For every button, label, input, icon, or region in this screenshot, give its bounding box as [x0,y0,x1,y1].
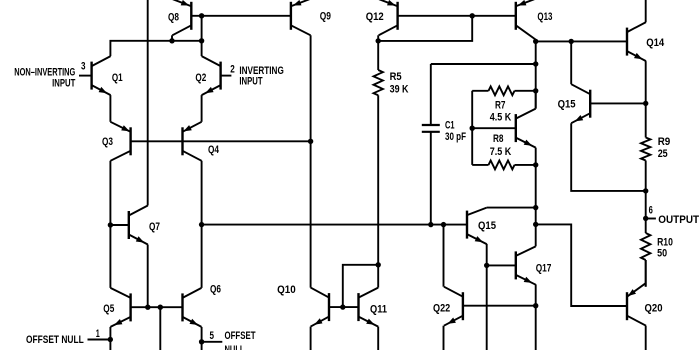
node Q17 base junction [484,263,489,268]
node Q10-Q11 base tie [340,304,345,309]
node Q14 base branch [569,39,574,44]
svg-text:OUTPUT: OUTPUT [658,214,699,226]
wire comp loop top [431,63,536,65]
transistor Q22 [444,287,463,326]
svg-text:R8: R8 [493,133,504,145]
wire Q15m emitter down [486,244,488,350]
label Q12 [366,11,384,23]
wire Q7 emitter down [147,245,149,308]
svg-text:Q9: Q9 [320,11,331,23]
label NON-INVERTING [14,67,75,79]
wire Q14 emitter down [645,61,647,137]
svg-text:Q10: Q10 [277,284,296,296]
wire Q8-Q9 base line [191,15,291,17]
svg-text:INPUT: INPUT [52,77,75,89]
svg-text:1: 1 [96,328,100,340]
label R10 value 50 [657,248,667,260]
svg-text:Q13: Q13 [537,11,552,23]
svg-text:Q3: Q3 [102,136,113,148]
wire Q16 emitter down [535,148,537,165]
wire R3 lead down [159,307,161,350]
resistor R7 [472,86,536,95]
wire Q17 base [487,264,516,266]
wire Q10-Q11 base line [329,306,359,308]
label Q2 [195,72,206,84]
svg-text:4.5 K: 4.5 K [490,112,512,124]
label Q22 [433,302,450,314]
wire Q11 emitter down [377,327,379,350]
transistor Q1 [92,56,111,95]
node Q22 collector junction [441,222,446,227]
svg-text:Q8: Q8 [168,12,179,24]
wire Q16 base [472,127,516,129]
svg-text:7.5 K: 7.5 K [490,146,512,158]
label R5 [390,71,402,83]
svg-text:R5: R5 [390,71,402,83]
node second stage takeoff [199,222,204,227]
node R3 junction [158,305,163,310]
transistor Q12 [379,0,398,35]
label Q15 (mid) [478,220,496,232]
label Q20 [645,303,663,315]
wire Q15 collector up [570,41,572,84]
transistor Q9 [291,0,311,35]
svg-text:Q6: Q6 [210,284,221,296]
label Q7 [149,221,160,233]
pin 3 stub [79,75,92,77]
node output junction [643,216,648,221]
label Q17 [536,262,552,274]
transistor Q6 [183,288,202,327]
wire Q4 collector down [201,161,203,288]
label R7 value 4.5 K [490,112,512,124]
svg-text:OFFSET NULL: OFFSET NULL [26,334,84,346]
transistor Q3 [110,122,130,161]
transistor Q5 [110,288,130,327]
label C1 [445,120,455,132]
wire Q2 collector up [201,41,203,56]
pin label 5 [210,330,215,342]
svg-text:R9: R9 [658,136,671,148]
node offset null 1 junction [108,337,113,342]
label Q9 [320,11,331,23]
transistor Q7 [129,206,148,245]
svg-text:Q7: Q7 [149,221,160,233]
label Q8 [168,12,179,24]
svg-text:Q12: Q12 [366,11,384,23]
pin 6 stub [646,218,656,220]
label Q13 [537,11,552,23]
svg-text:OFFSET: OFFSET [225,330,256,342]
wire right column lower [535,165,537,247]
resistor R9 [641,138,650,234]
svg-text:Q5: Q5 [103,303,114,315]
wire Q11 collector up [377,264,379,287]
svg-text:NULL: NULL [225,344,245,350]
wire Q8 collector down [171,35,173,41]
label Q15 (upper) [558,99,576,111]
transistor Q8 [172,0,191,35]
wire R7-R8 left side [471,91,473,165]
node Q8 base tie [199,13,204,18]
wire Q12 base-collector tie [378,16,472,41]
svg-text:C1: C1 [445,120,455,132]
wire Q5 emitter down [109,327,111,350]
node R5 bottom junction [376,262,381,267]
transistor Q16 (unlabeled driver) [516,109,536,148]
label Q10 [277,284,296,296]
wire Q15 base [590,102,646,104]
label NULL (pin5) [225,344,245,350]
node C1 / base node [470,126,475,131]
node Q7 emitter junction [145,305,150,310]
wire Q2 emitter to Q4 emitter [201,95,203,122]
node Q17 collector junction [533,222,538,227]
transistor Q15 current limiter [571,84,590,123]
svg-text:39 K: 39 K [390,83,409,95]
node Q13 collector junction [533,39,538,44]
wire C1 bottom lead [430,132,432,225]
wire Q17 collector to Q20 base [536,224,627,306]
transistor Q2 [202,56,221,95]
node R7 right junction [533,88,538,93]
pin label 6 [649,205,653,217]
wire Q10 emitter down [310,327,312,350]
label Q14 [646,37,665,49]
wire Q3-Q4 base line [131,140,311,142]
wire Q1 collector up [110,41,201,56]
node comp loop top junction [533,61,538,66]
label Q11 [370,304,387,316]
label Q5 [103,303,114,315]
node input collectors junction [199,38,204,43]
label Q1 [112,72,123,84]
wire C1 top lead [430,64,432,125]
pin 1 wire [88,339,111,341]
label INPUT (pin3) [52,77,75,89]
node Q22 base junction [533,303,538,308]
wire Q13 collector to Q14 base [536,40,627,42]
node R8 right junction [533,162,538,167]
label Q3 [102,136,113,148]
label OFFSET (pin5) [225,330,256,342]
svg-text:Q14: Q14 [646,37,665,49]
resistor R10 [641,233,650,287]
wire Q11 base-collector tie [343,265,378,307]
wire Q12-Q13 base line [398,15,516,17]
wire Q22 emitter down [443,326,445,350]
pin label 3 [81,61,86,73]
svg-text:Q1: Q1 [112,72,123,84]
wire Q6 emitter down [201,327,203,350]
label R5 value 39 K [390,83,409,95]
node Q8 collector junction [169,38,174,43]
transistor Q13 [516,0,536,40]
transistor Q20 [627,283,646,326]
wire Q9 collector down [310,35,312,287]
wire Q5-Q6 base line [131,306,183,308]
node Q12-Q13 base tie [470,13,475,18]
wire right column mid [535,41,537,108]
transistor Q17 [516,246,536,284]
label Q4 [208,144,220,156]
wire Q17 emitter down [535,284,537,350]
label C1 value 30 pF [445,131,466,143]
node offset null 5 junction [199,339,204,344]
wire Q22 collector up [443,225,445,287]
svg-text:Q22: Q22 [433,302,450,314]
svg-text:Q11: Q11 [370,304,387,316]
label R9 value 25 [658,148,668,160]
transistor Q14 [627,22,646,61]
wire Q3 collector down [109,161,111,288]
svg-text:INPUT: INPUT [239,76,262,88]
node Q9 collector / bases junction [308,139,313,144]
capacitor C1 [422,125,440,132]
label R9 [658,136,671,148]
wire Q7 base [110,224,128,226]
wire Q8 base-collector tie [201,16,203,41]
wire Q15 emitter to output [571,123,646,191]
svg-text:30 pF: 30 pF [445,131,466,143]
label Q6 [210,284,221,296]
wire Q14 collector up [645,0,647,22]
transistor Q4 [183,122,202,161]
label R8 value 7.5 K [490,146,512,158]
svg-text:Q17: Q17 [536,262,552,274]
wire Q7 collector to V+ rail [147,0,149,206]
node C1 bottom junction [428,222,433,227]
svg-text:25: 25 [658,148,668,160]
svg-text:Q4: Q4 [208,144,220,156]
node Q7 base tap [108,222,113,227]
wire Q16 collector up [535,91,537,109]
wire second stage base line [202,224,467,226]
label R7 [495,100,506,112]
svg-text:Q15: Q15 [558,99,576,111]
label R8 [493,133,504,145]
label R10 [657,237,673,249]
resistor R8 [472,161,536,170]
wire Q22 base [463,305,536,307]
transistor Q15 (mid) [467,208,487,245]
label OFFSET NULL (pin1) [26,334,84,346]
svg-text:5: 5 [210,330,215,342]
svg-text:2: 2 [230,63,235,75]
pin label 2 [230,63,235,75]
resistor R5 [374,41,383,265]
svg-text:Q2: Q2 [195,72,206,84]
svg-text:Q20: Q20 [645,303,663,315]
label INPUT (pin2) [239,76,262,88]
pin label 1 [96,328,100,340]
svg-text:Q15: Q15 [478,220,496,232]
node Q15 base junction [643,101,648,106]
label OUTPUT [658,214,699,226]
svg-text:50: 50 [657,248,667,260]
transistor Q11 [359,288,379,327]
node Q12 collector junction [376,38,381,43]
node Q15m collector junction [533,205,538,210]
pin 5 wire [202,341,223,343]
wire Q20 collector down [645,326,647,350]
wire Q12 collector down [377,35,379,41]
svg-text:6: 6 [649,205,653,217]
svg-text:3: 3 [81,61,86,73]
svg-text:R7: R7 [495,100,506,112]
node R9 bottom junction [643,188,648,193]
wire Q1 emitter to Q3 emitter [109,95,111,122]
wire Q15m collector [487,207,536,209]
label INVERTING [239,65,283,77]
pin 2 stub [221,75,232,77]
wire Q20 emitter up to R10 [645,260,647,287]
transistor Q10 [311,288,329,327]
